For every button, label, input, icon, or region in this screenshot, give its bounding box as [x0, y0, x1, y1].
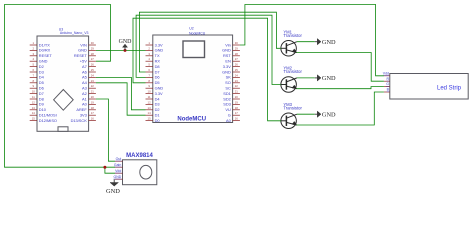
svg-text:G: G: [386, 82, 389, 86]
YM3 reference label: [283, 102, 302, 111]
svg-text:GND: GND: [39, 59, 48, 64]
svg-text:28: 28: [91, 52, 95, 56]
wire YM1 collector to ground arrow: [297, 41, 315, 43]
transistor YM2 (NPN): [281, 77, 297, 93]
MAX9814 microphone circle decoration: [140, 165, 152, 179]
wire net Vdd: U2 Vin (pin30) over top to Led Strip Vdd: [240, 5, 384, 76]
svg-text:D0/RX: D0/RX: [39, 48, 51, 53]
ground symbol GND (arrow right) at YM3 collector: [315, 111, 336, 118]
Led Strip module body: [390, 74, 468, 100]
wire net GND: U3 GND (pin29) to U2 GND (pin2): [96, 49, 146, 51]
svg-text:GND: GND: [155, 48, 164, 53]
ground symbol GND (arrow down) at MAX9814 GND pin: [106, 179, 120, 195]
svg-text:23: 23: [91, 79, 95, 83]
svg-text:22: 22: [235, 84, 239, 88]
svg-text:D8: D8: [155, 64, 160, 69]
ground symbol GND (arrow up) on U3-U2 GND net: [119, 39, 133, 51]
svg-text:Transistor: Transistor: [283, 33, 302, 38]
svg-text:A0: A0: [82, 102, 88, 107]
U2 right pins 30-16 (Vin..A0): [222, 41, 240, 123]
svg-text:D2: D2: [155, 107, 160, 112]
svg-text:D12/MISO: D12/MISO: [39, 118, 57, 123]
svg-text:20: 20: [235, 95, 239, 99]
svg-text:24: 24: [235, 73, 239, 77]
svg-text:NodeMCU: NodeMCU: [189, 31, 206, 35]
wire YM1 emitter to Led Strip R: [297, 53, 384, 82]
U2 left pins 1-15 (3.3V..D0): [146, 41, 164, 123]
svg-text:Vdd: Vdd: [115, 169, 121, 173]
svg-text:A0: A0: [226, 118, 232, 123]
svg-text:Out: Out: [116, 157, 122, 161]
YM2 reference label: [283, 66, 302, 75]
svg-text:SO: SO: [225, 80, 231, 85]
svg-text:RST: RST: [223, 53, 231, 58]
U3 right pins 30-16 (VIN..D13/SCK): [71, 41, 96, 123]
wire YM3 emitter to Led Strip B: [297, 92, 384, 125]
svg-text:16: 16: [235, 117, 239, 121]
svg-text:+5V: +5V: [80, 59, 87, 64]
svg-text:3.3V: 3.3V: [155, 91, 163, 96]
IC U3 Arduino_Nano_V3 body: [37, 27, 89, 131]
svg-text:D5: D5: [39, 80, 44, 85]
svg-text:SK: SK: [226, 75, 232, 80]
U3 bottom notch (USB): [58, 127, 68, 132]
svg-text:A6: A6: [82, 69, 87, 74]
Led Strip pins Vdd, R, G, B: [383, 71, 390, 92]
svg-text:D0: D0: [155, 118, 161, 123]
svg-text:D8: D8: [39, 96, 44, 101]
IC U2 NodeMCU body: [153, 26, 233, 122]
svg-text:G: G: [228, 113, 231, 118]
wire net +5V branch: junction down to MAX9814 Vdd: [105, 167, 115, 173]
wire YM2 emitter to Led Strip G: [297, 87, 384, 89]
svg-text:A2: A2: [82, 91, 87, 96]
svg-text:D6: D6: [155, 75, 160, 80]
svg-text:30: 30: [235, 41, 239, 45]
svg-text:RESET: RESET: [74, 53, 88, 58]
svg-text:30: 30: [91, 41, 95, 45]
svg-text:D7: D7: [155, 69, 160, 74]
MAX9814 pins Out, Gain, Vdd, GND: [114, 157, 123, 179]
svg-text:D2: D2: [39, 64, 44, 69]
svg-text:18: 18: [235, 106, 239, 110]
svg-text:SC: SC: [225, 86, 231, 91]
svg-text:D10: D10: [39, 107, 47, 112]
svg-text:Led Strip: Led Strip: [437, 86, 462, 92]
svg-text:RX: RX: [155, 59, 161, 64]
U3 diamond decoration: [54, 90, 74, 111]
svg-text:D3: D3: [39, 69, 44, 74]
svg-text:GND: GND: [119, 39, 133, 45]
svg-text:NodeMCU: NodeMCU: [177, 117, 206, 123]
wire YM3 collector to ground arrow: [297, 113, 315, 115]
svg-text:SD1: SD1: [223, 91, 231, 96]
svg-text:RESET: RESET: [39, 53, 53, 58]
svg-text:19: 19: [91, 100, 95, 104]
svg-text:14: 14: [32, 111, 36, 115]
svg-text:GND: GND: [322, 39, 336, 46]
wire net audio: MAX9814 Out to U3 A1 (pin20): [96, 99, 115, 161]
svg-text:17: 17: [235, 111, 239, 115]
svg-text:Gain: Gain: [114, 163, 121, 167]
svg-text:21: 21: [91, 90, 95, 94]
ground symbol GND (arrow right) at YM1 collector: [315, 39, 336, 46]
svg-text:14: 14: [148, 111, 152, 115]
wire net SCL: U3 A4 (pin23) to U2 D1 (pin14): [96, 83, 146, 115]
svg-text:11: 11: [148, 95, 151, 99]
U2 module rectangle decoration: [183, 41, 205, 58]
junction on GND net at (125,50.4): [124, 49, 127, 52]
svg-text:GND: GND: [114, 175, 122, 179]
svg-text:GND: GND: [155, 86, 164, 91]
svg-text:15: 15: [148, 117, 152, 121]
svg-text:25: 25: [235, 68, 239, 72]
svg-text:GND: GND: [322, 75, 336, 82]
svg-text:GND: GND: [222, 69, 231, 74]
junction on +5V net at MAX9814 Gain: [103, 166, 106, 169]
YM1 reference label: [283, 29, 302, 38]
wire YM2 collector to ground arrow: [297, 77, 315, 79]
svg-text:Arduino_Nano_V3: Arduino_Nano_V3: [60, 31, 89, 35]
svg-text:12: 12: [32, 100, 36, 104]
svg-text:SD2: SD2: [223, 96, 231, 101]
svg-text:10: 10: [32, 90, 36, 94]
svg-text:Transistor: Transistor: [283, 106, 302, 111]
svg-text:20: 20: [91, 95, 95, 99]
IC MAX9814 microphone module body: [123, 153, 157, 185]
svg-text:TX: TX: [155, 53, 160, 58]
wire net B-drive: U2 D5 (pin8) over top rail to YM3 base: [133, 18, 281, 121]
svg-text:23: 23: [235, 79, 239, 83]
svg-text:GND: GND: [222, 48, 231, 53]
svg-text:MAX9814: MAX9814: [126, 153, 153, 159]
wire net SDA: U3 A5 (pin24) to U2 D2 (pin13): [96, 77, 146, 109]
transistor YM3 (NPN): [281, 113, 297, 129]
svg-text:D1: D1: [155, 113, 160, 118]
wire net G-drive: U2 D6 (pin7) over top rail to YM2 base: [136, 15, 281, 84]
svg-text:D4: D4: [155, 96, 161, 101]
svg-text:17: 17: [91, 111, 95, 115]
svg-text:D4: D4: [39, 75, 45, 80]
svg-text:D1/TX: D1/TX: [39, 42, 50, 47]
wire net R-drive: U2 D7 (pin6) over top rail to YM1 base: [139, 12, 281, 72]
svg-text:A3: A3: [82, 86, 87, 91]
svg-text:VIN: VIN: [80, 42, 87, 47]
svg-text:16: 16: [91, 117, 95, 121]
svg-text:27: 27: [91, 57, 95, 61]
svg-text:GND: GND: [322, 111, 336, 118]
svg-text:Vin: Vin: [225, 42, 231, 47]
svg-text:D7: D7: [39, 91, 44, 96]
svg-text:A1: A1: [82, 96, 87, 101]
svg-text:D3: D3: [155, 102, 160, 107]
svg-text:11: 11: [32, 95, 35, 99]
svg-text:D5: D5: [155, 80, 160, 85]
svg-text:12: 12: [148, 100, 152, 104]
svg-text:D11/MOSI: D11/MOSI: [39, 113, 57, 118]
svg-text:A5: A5: [82, 75, 87, 80]
svg-text:U2: U2: [189, 26, 194, 30]
svg-text:GND: GND: [106, 188, 120, 195]
svg-text:D6: D6: [39, 86, 44, 91]
svg-text:10: 10: [148, 90, 152, 94]
svg-text:25: 25: [91, 68, 95, 72]
svg-text:13: 13: [148, 106, 152, 110]
ground symbol GND (arrow right) at YM2 collector: [315, 75, 336, 82]
svg-text:21: 21: [235, 90, 239, 94]
svg-text:29: 29: [235, 46, 239, 50]
svg-text:A7: A7: [82, 64, 87, 69]
svg-text:13: 13: [32, 106, 36, 110]
U3 left pins 1-15 (D1/TX..D12/MISO): [30, 41, 57, 123]
svg-text:EN: EN: [225, 59, 231, 64]
svg-text:Vdd: Vdd: [383, 71, 389, 75]
svg-text:26: 26: [91, 63, 95, 67]
svg-text:AREF: AREF: [76, 107, 87, 112]
svg-text:Transistor: Transistor: [283, 69, 302, 74]
wire net +5V: U3 +5V (pin27) around left border to MAX9814 Gain: [5, 5, 116, 168]
svg-text:D9: D9: [39, 102, 44, 107]
svg-text:18: 18: [91, 106, 95, 110]
svg-text:A4: A4: [82, 80, 88, 85]
svg-text:19: 19: [235, 100, 239, 104]
transistor YM1 (NPN): [281, 41, 297, 57]
svg-text:28: 28: [235, 52, 239, 56]
svg-text:29: 29: [91, 46, 95, 50]
svg-text:22: 22: [91, 84, 95, 88]
svg-text:VU: VU: [225, 107, 231, 112]
svg-text:D13/SCK: D13/SCK: [71, 118, 88, 123]
svg-text:3V3: 3V3: [80, 113, 87, 118]
svg-text:26: 26: [235, 63, 239, 67]
svg-text:24: 24: [91, 73, 95, 77]
svg-text:3.3V: 3.3V: [223, 64, 231, 69]
svg-text:27: 27: [235, 57, 239, 61]
svg-text:SD3: SD3: [223, 102, 231, 107]
svg-text:3.3V: 3.3V: [155, 42, 163, 47]
svg-text:15: 15: [32, 117, 36, 121]
svg-text:GND: GND: [78, 48, 87, 53]
